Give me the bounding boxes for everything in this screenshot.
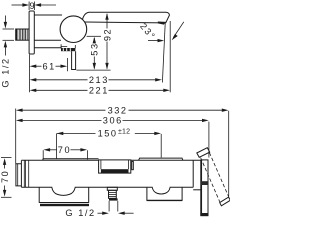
lever top cap (tilted)	[197, 148, 210, 158]
right escutcheon bottom	[193, 189, 201, 191]
wall plate	[29, 11, 34, 54]
svg-text:61: 61	[43, 61, 56, 71]
inlet thread pipe G 1/2	[16, 29, 29, 40]
svg-text:92: 92	[102, 28, 112, 41]
svg-text:332: 332	[108, 106, 128, 116]
ext line 61 right	[66, 58, 68, 71]
svg-text:70: 70	[58, 145, 71, 155]
grip band	[61, 48, 75, 51]
spout outlet wedge	[158, 22, 166, 25]
dim 53	[93, 37, 96, 70]
left union block	[39, 187, 89, 206]
dim 70 horizontal	[43, 148, 87, 151]
dim 150 +-12	[56, 132, 161, 135]
svg-text:G 1/2: G 1/2	[0, 57, 10, 87]
ext line left (332/306)	[15, 109, 17, 164]
raised plateau right	[139, 158, 183, 160]
ext 70 left	[42, 150, 44, 159]
ext line right 306	[208, 122, 210, 158]
svg-text:221: 221	[89, 86, 109, 96]
neck bottom line	[34, 39, 61, 41]
angle 23 arrow right-pointing	[148, 39, 164, 42]
vertical extension line 221	[169, 21, 171, 92]
knob skirt edges	[60, 44, 62, 48]
dim 61	[30, 65, 68, 68]
dim 9 line	[12, 2, 57, 11]
ext 150 left	[55, 134, 57, 159]
dim G 1/2 bottom arrows	[98, 212, 134, 215]
angle 23 diagonal arrow	[172, 22, 184, 40]
dim 213	[30, 78, 162, 81]
body bottom edge with union notches	[21, 187, 193, 195]
svg-text:53: 53	[90, 42, 100, 55]
spout tube	[82, 12, 169, 23]
ext 150 right	[160, 134, 162, 158]
svg-text:G 1/2: G 1/2	[65, 208, 95, 218]
body top right continuous	[131, 159, 201, 161]
dim 306	[16, 119, 209, 122]
svg-text:213: 213	[89, 75, 109, 85]
dim 70 vertical (left)	[1, 158, 12, 198]
svg-text:±12: ±12	[118, 128, 130, 135]
svg-text:306: 306	[103, 116, 123, 126]
neck top line	[34, 14, 62, 16]
body top edge	[21, 159, 98, 161]
button block on body	[99, 160, 131, 173]
outlet nipple (side view)	[72, 51, 76, 69]
lever bar (vertical, rest position)	[200, 160, 208, 216]
dim 332	[16, 109, 229, 112]
cover notch	[61, 46, 67, 48]
nipple ext lines	[108, 201, 110, 212]
handle knob circle	[60, 16, 87, 43]
hose nipple (front view)	[107, 187, 117, 200]
svg-text:150: 150	[98, 129, 118, 139]
svg-text:70: 70	[0, 170, 10, 183]
ext 70 right	[86, 150, 88, 159]
ext line right 332	[228, 111, 230, 196]
dim 92	[105, 13, 108, 70]
body right edge	[192, 160, 194, 187]
right union block	[147, 187, 182, 201]
raised escutcheon top left	[43, 159, 99, 161]
left end cap	[16, 160, 29, 187]
baseline under nipple	[76, 69, 110, 71]
lower cover line	[34, 47, 61, 49]
small tab right of button	[132, 161, 134, 169]
svg-text:9: 9	[30, 1, 37, 11]
ext line wall plate	[28, 55, 30, 93]
hidden body bottom line	[87, 35, 101, 37]
tilted extension line (23deg)	[162, 24, 165, 83]
lever alternate position (dashed)	[201, 153, 231, 206]
G 1/2 label (side view)	[3, 16, 15, 56]
dim 221	[30, 89, 170, 92]
